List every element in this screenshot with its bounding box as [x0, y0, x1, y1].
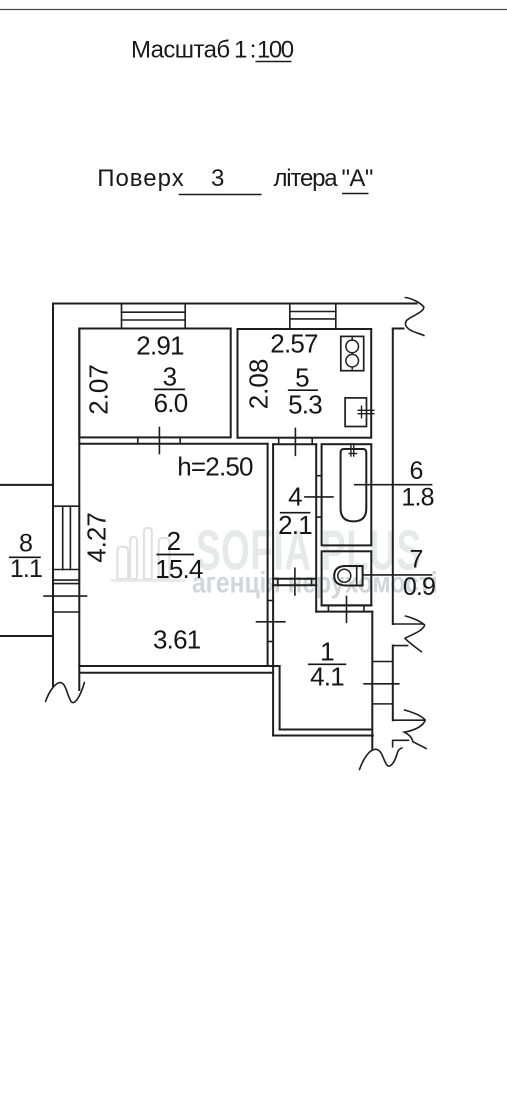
bathroom 6 box	[322, 444, 372, 545]
watermark logo: columns building	[111, 528, 186, 582]
label room 1 fraction line	[308, 663, 346, 665]
room 2 right wall	[267, 444, 269, 666]
room 1 bottom inner wall	[280, 729, 372, 731]
svg-text:літера: літера	[274, 165, 339, 192]
wall: right break top ledge	[393, 623, 423, 625]
wc bottom wall lines	[322, 604, 372, 606]
svg-text::: :	[250, 37, 256, 64]
svg-text:2: 2	[167, 526, 181, 556]
break: bottom right wave	[360, 748, 403, 770]
room 1 right wall	[371, 612, 373, 750]
room 2 bottom inner wall	[79, 665, 279, 667]
room 1 interior left edge (step)	[279, 666, 281, 730]
bathtub faucet	[350, 443, 352, 457]
svg-text:Поверх: Поверх	[97, 165, 185, 192]
toilet	[334, 566, 362, 586]
svg-text:агенція нерухомості: агенція нерухомості	[192, 565, 438, 599]
right wall rung upper	[372, 661, 393, 663]
label room 2 fraction line	[157, 554, 195, 556]
entrance door tick	[364, 683, 399, 685]
corridor 4 top wall	[273, 443, 316, 445]
corridor 4 / room 1 left wall	[272, 444, 274, 735]
door room 1 to wc 7	[327, 605, 329, 611]
svg-text:1: 1	[234, 37, 247, 64]
wall: right exterior upper	[392, 329, 394, 625]
label corridor 4 fraction line	[280, 512, 311, 514]
title: Масштаб 1 : 100	[131, 37, 294, 64]
room 1 bottom outer wall	[273, 735, 373, 737]
svg-text:5.3: 5.3	[288, 389, 322, 419]
page top rule	[0, 9, 507, 11]
svg-text:0.9: 0.9	[403, 573, 435, 601]
room 3 box	[79, 329, 230, 438]
leader line room 7	[364, 574, 432, 576]
label room 5 fraction line	[288, 389, 318, 391]
balcony 8 bottom wall	[0, 635, 53, 637]
svg-text:6.0: 6.0	[154, 388, 188, 418]
svg-text:15.4: 15.4	[155, 554, 203, 584]
svg-text:7: 7	[409, 546, 422, 574]
door room 3 to room 2	[137, 437, 139, 443]
window W1 above room 3	[121, 304, 123, 329]
svg-text:"А": "А"	[342, 165, 373, 192]
wall: right break bottom ledge	[393, 645, 408, 647]
window W3 in left wall with balcony door	[53, 505, 79, 507]
break: top right	[405, 298, 424, 336]
door corridor 4 to bathroom 6	[316, 475, 321, 477]
wall: left interior line	[78, 329, 80, 691]
balcony 8 top wall	[0, 484, 53, 486]
leader line room 6	[355, 484, 432, 486]
svg-text:5: 5	[295, 363, 309, 393]
kitchen sink	[345, 398, 374, 427]
wall cut ledge B	[393, 740, 409, 747]
wall: left exterior	[52, 304, 54, 687]
svg-text:2.1: 2.1	[278, 510, 312, 540]
door corridor 4 to room 1	[277, 579, 279, 586]
svg-text:h=2.50: h=2.50	[177, 452, 253, 482]
window W2 above room 5	[289, 304, 291, 330]
stove in kitchen	[341, 336, 364, 370]
room 5 box	[238, 329, 372, 438]
wall: right exterior lower	[392, 646, 394, 721]
room 2 bottom outer wall	[80, 672, 273, 674]
svg-text:Масштаб: Масштаб	[131, 37, 229, 64]
break: right middle	[405, 616, 425, 652]
svg-text:3: 3	[211, 165, 224, 192]
wall: top interior stub right	[393, 328, 404, 330]
svg-text:3.61: 3.61	[153, 625, 201, 655]
svg-text:2.07: 2.07	[84, 364, 114, 415]
label room 3 fraction line	[154, 388, 185, 390]
svg-text:6: 6	[409, 457, 422, 485]
svg-text:2.91: 2.91	[136, 330, 184, 360]
svg-text:4.1: 4.1	[310, 662, 344, 692]
wall: top exterior	[53, 303, 417, 305]
balcony door tick	[44, 595, 87, 597]
svg-text:4: 4	[288, 481, 302, 511]
wc 7 box	[322, 551, 372, 605]
corridor 4 bottom wall lines	[273, 578, 316, 580]
svg-text:4.27: 4.27	[82, 512, 112, 563]
svg-text:3: 3	[163, 361, 177, 391]
svg-text:100: 100	[257, 37, 294, 64]
wall: bottom-right cut ledge	[393, 719, 424, 721]
svg-text:8: 8	[19, 530, 32, 558]
svg-text:1.1: 1.1	[10, 555, 42, 583]
room 2 top wall	[79, 443, 267, 445]
break: bottom right star	[404, 710, 426, 749]
break: bottom left	[46, 683, 85, 703]
svg-text:2.57: 2.57	[270, 329, 318, 359]
right wall rung lower	[372, 703, 393, 705]
label balcony 8 fraction line	[9, 556, 41, 558]
svg-text:2.08: 2.08	[244, 359, 274, 410]
door room 5 to corridor 4	[278, 438, 280, 445]
subtitle: Поверх 3 літера "А"	[97, 165, 373, 195]
corridor 4 right wall	[315, 444, 317, 611]
door room 2 to room 1	[268, 600, 274, 602]
svg-text:1.8: 1.8	[401, 484, 433, 512]
bathtub	[341, 443, 367, 521]
